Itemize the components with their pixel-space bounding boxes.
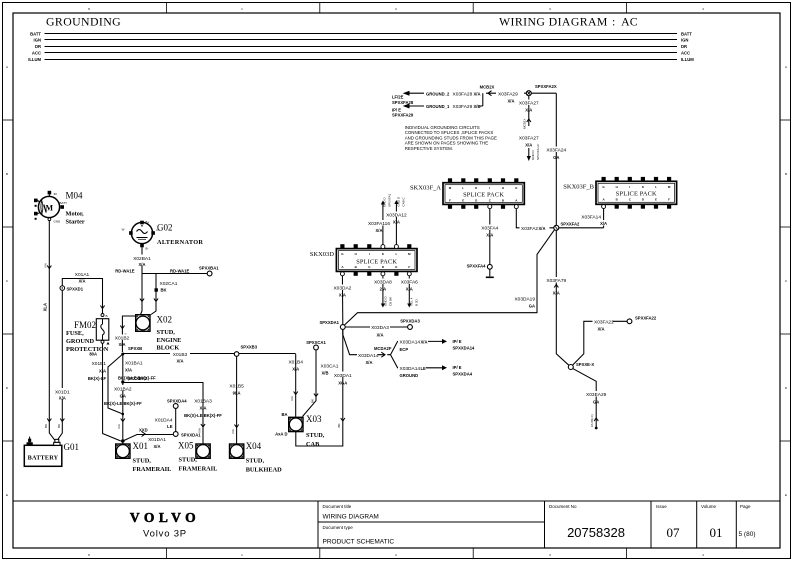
svg-text:X/B: X/B: [474, 104, 481, 109]
svg-text:ENGINE: ENGINE: [157, 337, 182, 344]
svg-text:GND D: GND D: [397, 196, 401, 207]
node SPXXE junction: [568, 362, 594, 370]
svg-text:SPXXDA1: SPXXDA1: [181, 433, 201, 438]
svg-text:IGN: IGN: [34, 37, 41, 42]
svg-text:ILLUM: ILLUM: [28, 57, 41, 62]
bus IGN: [34, 37, 689, 42]
wire X03DA12: [386, 196, 407, 245]
svg-text:SPXXBA1: SPXXBA1: [199, 266, 219, 271]
svg-text:X01A1: X01A1: [75, 272, 90, 278]
svg-text:X/A: X/A: [486, 233, 493, 238]
svg-text:X01: X01: [133, 441, 149, 451]
svg-text:X03FA79: X03FA79: [546, 278, 566, 284]
svg-text:I: I: [369, 252, 370, 256]
svg-text:SPXXD1: SPXXD1: [67, 287, 84, 292]
wire X03FA4: [481, 209, 500, 265]
svg-text:X03EA29: X03EA29: [586, 392, 607, 398]
svg-text:B 3D: B 3D: [415, 298, 419, 306]
svg-text:Starter: Starter: [66, 219, 85, 226]
splice pack SKX03F_A: [410, 178, 524, 208]
wire X03FA6: [400, 276, 419, 308]
node SPXXFA2X crossed splice: [526, 84, 557, 96]
svg-text:STUD,: STUD,: [179, 457, 198, 464]
svg-text:BATT: BATT: [681, 31, 692, 36]
svg-text:X04: X04: [246, 441, 262, 451]
svg-text:SPXXFA2: SPXXFA2: [561, 222, 581, 227]
svg-text:X03DA14: X03DA14: [400, 366, 421, 372]
wire X03FA14: [559, 209, 609, 228]
svg-text:CB BK: CB BK: [389, 297, 393, 306]
svg-text:SPXXDA4: SPXXDA4: [453, 372, 473, 377]
svg-text:BK: BK: [311, 399, 315, 403]
svg-text:SPXXBA2: SPXXBA2: [128, 376, 148, 381]
svg-text:RD-WA1E: RD-WA1E: [115, 269, 135, 274]
svg-text:X03DA2: X03DA2: [333, 286, 351, 292]
svg-text:X/A: X/A: [59, 396, 66, 401]
svg-text:SPXXCA1: SPXXCA1: [306, 340, 326, 345]
node SPXXB3: [234, 345, 257, 357]
svg-text:BATT: BATT: [30, 31, 41, 36]
wire X01DA4: [155, 408, 176, 431]
svg-text:X/A: X/A: [154, 444, 161, 449]
svg-text:X/A: X/A: [421, 340, 428, 345]
svg-text:Volume: Volume: [701, 504, 717, 509]
svg-text:RD-WA1E: RD-WA1E: [170, 269, 190, 274]
svg-text:CAB: CAB: [306, 441, 320, 448]
svg-text:Issue: Issue: [656, 504, 667, 509]
wire X01BA3: [123, 383, 222, 441]
svg-text:A: A: [785, 65, 787, 69]
wire X03DA2: [333, 276, 352, 325]
svg-text:X03FA29: X03FA29: [498, 91, 518, 97]
svg-text:X01B1: X01B1: [92, 361, 107, 367]
wire X01A1 battery to fuse: [62, 272, 104, 313]
svg-text:M: M: [46, 204, 54, 213]
svg-text:07: 07: [667, 525, 681, 540]
svg-text:X/A: X/A: [292, 367, 299, 372]
svg-text:SKX03F_B: SKX03F_B: [563, 184, 594, 191]
svg-text:IP/ E: IP/ E: [453, 365, 462, 370]
svg-text:AxA D: AxA D: [275, 432, 287, 437]
svg-text:X03DA19: X03DA19: [514, 297, 535, 303]
svg-text:X03FA14: X03FA14: [581, 215, 601, 221]
svg-text:B+: B+: [146, 220, 150, 224]
svg-text:ECP: ECP: [400, 347, 409, 352]
node SP splice on X01D1: [60, 286, 84, 292]
svg-text:PRODUCT SCHEMATIC: PRODUCT SCHEMATIC: [323, 539, 395, 546]
svg-text:ALTERNATOR: ALTERNATOR: [157, 239, 203, 246]
stud X02: [136, 315, 182, 352]
svg-text:X03FA28: X03FA28: [453, 91, 473, 97]
svg-text:X01BA3: X01BA3: [194, 399, 212, 405]
svg-text:: AC: : AC: [612, 15, 638, 29]
wire M04 GND to battery: [43, 221, 55, 441]
node SPXXCA1: [306, 340, 326, 350]
svg-text:I: I: [629, 185, 630, 189]
svg-text:B: B: [106, 314, 108, 318]
svg-text:X/A: X/A: [600, 221, 607, 226]
svg-text:DR: DR: [35, 44, 41, 49]
svg-text:GA: GA: [593, 400, 599, 405]
svg-text:GA: GA: [529, 304, 535, 309]
stud X03: [275, 412, 325, 448]
svg-text:E: E: [462, 198, 464, 202]
svg-text:X01B3: X01B3: [173, 352, 188, 358]
svg-text:VOL 4: VOL 4: [410, 297, 414, 306]
svg-text:5 (80): 5 (80): [739, 531, 756, 538]
svg-text:X02CA1: X02CA1: [160, 281, 178, 287]
node SPXXBA1: [199, 266, 219, 276]
svg-text:IGN: IGN: [681, 37, 688, 42]
wire to stud X01: [117, 414, 125, 444]
svg-text:FRAMERAIL: FRAMERAIL: [179, 466, 218, 473]
wire X01BA1: [118, 354, 156, 382]
svg-text:SPXXDA3: SPXXDA3: [400, 319, 420, 324]
svg-text:FM02: FM02: [74, 320, 96, 330]
svg-text:FRAMERAIL: FRAMERAIL: [133, 466, 172, 473]
svg-text:SPXXFA2X: SPXXFA2X: [535, 84, 557, 89]
bus DR: [35, 44, 687, 49]
wire X02BA1 alternator to X02: [115, 247, 189, 314]
svg-text:RESPECTIVE SYSTEM.: RESPECTIVE SYSTEM.: [405, 146, 453, 151]
wire GROUND_1 chain: [392, 103, 483, 118]
svg-text:X01DA1: X01DA1: [148, 437, 166, 443]
svg-text:GND D: GND D: [384, 296, 388, 307]
svg-text:F: F: [408, 265, 410, 269]
wire X01DA1: [123, 428, 173, 450]
wire X03CA1: [303, 350, 339, 417]
svg-text:H: H: [355, 252, 357, 256]
svg-text:W: W: [122, 228, 125, 232]
node SPXXDA1 junction: [319, 320, 345, 329]
svg-text:WIRING DIAGRAM: WIRING DIAGRAM: [499, 15, 608, 29]
svg-text:80A: 80A: [89, 352, 97, 357]
svg-text:GND: GND: [54, 220, 62, 224]
svg-text:Page: Page: [740, 504, 751, 509]
svg-text:20758328: 20758328: [567, 525, 625, 540]
svg-text:X03FA27: X03FA27: [519, 101, 539, 107]
svg-text:MCB2X: MCB2X: [480, 85, 495, 90]
svg-text:SKX03D: SKX03D: [310, 251, 335, 258]
bus BATT: [30, 31, 692, 36]
svg-text:BK: BK: [161, 288, 167, 293]
bus ACC: [32, 50, 690, 55]
svg-text:BK: BK: [44, 424, 48, 428]
svg-text:X/A: X/A: [44, 263, 48, 268]
svg-text:X/A: X/A: [393, 220, 400, 225]
TITLEBLOCK: [13, 501, 780, 548]
svg-text:I: I: [489, 186, 490, 190]
svg-text:BULKHEAD: BULKHEAD: [246, 467, 282, 474]
wire X01B4: [288, 354, 303, 417]
svg-text:X03FA24: X03FA24: [546, 148, 566, 154]
svg-text:BK: BK: [337, 423, 341, 427]
svg-text:Document No: Document No: [549, 504, 577, 509]
wire X02CA1: [151, 274, 178, 315]
wire X03FA27 lower off-page: [519, 136, 540, 162]
fuse FM02: [66, 314, 110, 357]
svg-text:X03DA12: X03DA12: [386, 213, 407, 219]
svg-text:X/A: X/A: [119, 342, 126, 347]
svg-text:X03FA6: X03FA6: [401, 280, 418, 286]
svg-text:GROUND_2: GROUND_2: [426, 91, 450, 96]
wire X03DA1: [296, 329, 353, 446]
svg-text:BK(X)-LF: BK(X)-LF: [88, 376, 107, 381]
svg-text:X/A: X/A: [99, 369, 106, 374]
node SPXXDA4: [167, 399, 187, 409]
svg-text:B: B: [785, 172, 787, 176]
svg-text:X/A: X/A: [117, 424, 121, 429]
svg-text:SPXXFA-LF: SPXXFA-LF: [536, 144, 540, 160]
svg-text:X/A: X/A: [525, 108, 532, 113]
svg-text:SPXXFA1: SPXXFA1: [388, 193, 392, 207]
svg-text:X01B5: X01B5: [229, 384, 244, 390]
svg-text:E: E: [655, 198, 657, 202]
svg-text:F: F: [668, 198, 670, 202]
svg-text:X03FA2: X03FA2: [521, 226, 538, 232]
svg-text:E: E: [785, 493, 787, 497]
svg-text:01: 01: [710, 525, 723, 540]
svg-text:X/A: X/A: [376, 228, 383, 233]
svg-text:SPXXE-X: SPXXE-X: [576, 362, 594, 367]
svg-text:A: A: [6, 65, 8, 69]
svg-text:30: 30: [54, 192, 58, 196]
svg-text:X03DA14: X03DA14: [358, 353, 379, 359]
svg-text:BLOCK: BLOCK: [157, 345, 180, 352]
node junction BA SPXXBA2: [121, 376, 148, 384]
svg-text:FUSE,: FUSE,: [66, 330, 84, 337]
svg-text:GA: GA: [120, 394, 126, 399]
svg-text:SPXXFA28: SPXXFA28: [392, 100, 414, 105]
svg-text:MCB2X: MCB2X: [522, 119, 526, 129]
wire X03FA79 down: [546, 230, 568, 365]
svg-text:X/A: X/A: [290, 396, 294, 401]
svg-text:F: F: [449, 198, 451, 202]
svg-text:X03FA116: X03FA116: [368, 221, 390, 227]
svg-text:X01B4: X01B4: [288, 360, 303, 366]
svg-text:LE: LE: [421, 366, 427, 371]
wire X01B3: [123, 351, 296, 364]
node SPXXFA4 ground termination: [467, 264, 494, 278]
svg-text:SPLICE PACK: SPLICE PACK: [356, 259, 397, 266]
svg-text:L: L: [655, 185, 657, 189]
svg-text:X03DA8: X03DA8: [374, 280, 392, 286]
wire X03FA27 upper: [519, 96, 539, 129]
svg-text:X03CA1: X03CA1: [321, 364, 339, 370]
svg-text:BATT: BATT: [60, 201, 68, 205]
svg-text:SPXXB: SPXXB: [128, 346, 142, 351]
wire X01D1 to battery: [53, 291, 72, 441]
node SPXXFA junction: [554, 222, 580, 231]
svg-text:X/A: X/A: [339, 293, 346, 298]
svg-text:G01: G01: [64, 442, 80, 452]
svg-text:B: B: [6, 172, 8, 176]
svg-text:X03DA3: X03DA3: [371, 325, 389, 331]
wire X03EA29: [573, 369, 607, 430]
svg-text:X02: X02: [157, 315, 173, 325]
svg-text:Document type: Document type: [323, 525, 354, 530]
wire X03FA2: [516, 209, 553, 232]
alternator G02: [122, 220, 204, 251]
svg-text:CAB C: CAB C: [402, 196, 406, 206]
wire X01BA2: [104, 382, 142, 414]
splice pack SKX03D: [310, 244, 417, 276]
wire X01B2 stud X02 to junction: [114, 316, 143, 352]
stud X05: [178, 441, 217, 473]
svg-text:SKX03F_A: SKX03F_A: [410, 185, 441, 192]
wire X03DA14 branch: [343, 329, 475, 378]
motor M04: [34, 191, 85, 226]
svg-text:GROUND_1: GROUND_1: [426, 104, 450, 109]
svg-text:X/A: X/A: [539, 226, 546, 231]
wire X03DA19 long run: [345, 230, 555, 325]
svg-text:ACC: ACC: [681, 50, 690, 55]
node SPXXFA22: [627, 316, 657, 324]
svg-text:X/A: X/A: [553, 291, 560, 296]
svg-text:2.A: 2.A: [380, 287, 387, 292]
note text: [405, 125, 497, 151]
svg-text:SPLICE PACK: SPLICE PACK: [463, 192, 504, 199]
svg-text:X03FA29: X03FA29: [453, 104, 473, 110]
svg-text:X/A: X/A: [79, 279, 86, 284]
svg-text:GROUNDING: GROUNDING: [46, 15, 121, 29]
svg-text:L: L: [462, 186, 464, 190]
svg-text:X/A: X/A: [406, 287, 413, 292]
svg-text:X01BA2: X01BA2: [114, 387, 132, 393]
wire X03FA116: [368, 193, 392, 244]
svg-text:XGA: XGA: [338, 381, 347, 386]
svg-text:G02: G02: [157, 223, 173, 233]
svg-text:SPXXDA14: SPXXDA14: [453, 346, 476, 351]
stud X04: [230, 441, 283, 474]
svg-text:BK: BK: [57, 424, 61, 428]
svg-text:STUD,: STUD,: [133, 458, 152, 465]
wire X01B1: [88, 354, 123, 414]
wire X03FA22: [573, 318, 628, 365]
svg-text:X/A: X/A: [366, 360, 373, 365]
wire FM02 to X01: [103, 343, 121, 441]
svg-text:X01BA1: X01BA1: [125, 361, 143, 367]
svg-text:BK(X)-LE BK(X)-FF: BK(X)-LE BK(X)-FF: [184, 413, 222, 418]
svg-text:X03: X03: [306, 414, 322, 424]
svg-text:X03FA4: X03FA4: [481, 226, 498, 232]
svg-text:ACC: ACC: [32, 50, 41, 55]
svg-text:Volvo 3P: Volvo 3P: [143, 529, 187, 540]
node SPXXDA3: [400, 319, 420, 330]
svg-text:BK(X)-LE BK(X)-FF: BK(X)-LE BK(X)-FF: [104, 401, 142, 406]
svg-text:GROUND: GROUND: [400, 373, 419, 378]
svg-text:X01DA4: X01DA4: [155, 418, 173, 424]
wire X03DA8: [374, 276, 393, 308]
svg-text:IP/ E: IP/ E: [453, 339, 462, 344]
svg-text:X/A: X/A: [200, 406, 207, 411]
wire GROUND_2 chain: [392, 85, 526, 106]
svg-text:GND D: GND D: [383, 197, 387, 208]
svg-text:X03FA27: X03FA27: [519, 136, 539, 142]
svg-text:SPXXDA4: SPXXDA4: [167, 399, 187, 404]
wire to splice SPXXBA1: [142, 273, 207, 275]
bus ILLUM: [28, 57, 694, 62]
svg-text:STUD,: STUD,: [157, 329, 176, 336]
node junction at X01 top: [122, 413, 125, 416]
svg-text:X/A: X/A: [377, 333, 384, 338]
svg-text:GND D: GND D: [531, 150, 535, 161]
stud X01: [116, 441, 172, 473]
svg-text:SPLICE PACK: SPLICE PACK: [616, 191, 657, 198]
svg-text:BA: BA: [281, 412, 287, 417]
svg-text:SPXXFA29: SPXXFA29: [392, 113, 414, 118]
svg-text:STUD,: STUD,: [306, 432, 325, 439]
svg-text:XXD: XXD: [139, 428, 148, 433]
svg-text:X/A: X/A: [508, 98, 515, 103]
svg-text:E: E: [6, 493, 8, 497]
svg-text:XLA: XLA: [43, 303, 48, 311]
svg-text:H: H: [502, 186, 504, 190]
svg-text:M04: M04: [66, 191, 84, 201]
node junction B: [121, 353, 124, 356]
svg-text:B-: B-: [146, 247, 149, 251]
svg-text:9LA: 9LA: [233, 391, 241, 396]
svg-text:STUD,: STUD,: [246, 458, 265, 465]
svg-text:VOLVO: VOLVO: [130, 510, 200, 525]
node SPXXDA1: [173, 432, 201, 438]
splice pack SKX03F_B: [563, 177, 676, 209]
svg-text:X03FA22: X03FA22: [594, 319, 614, 325]
wire X03FA24 vertical: [546, 93, 566, 225]
svg-text:Motor,: Motor,: [66, 211, 85, 218]
svg-text:X05: X05: [178, 441, 194, 451]
svg-text:X/A: X/A: [177, 359, 184, 364]
svg-text:FA 08(-X): FA 08(-X): [590, 414, 594, 427]
svg-text:SPXXDA1: SPXXDA1: [319, 320, 339, 325]
svg-text:X/A: X/A: [598, 327, 605, 332]
svg-text:MCDA2F: MCDA2F: [374, 346, 392, 351]
svg-text:X01B2: X01B2: [115, 336, 130, 342]
svg-text:SPXXFA4: SPXXFA4: [467, 264, 487, 269]
svg-text:DR: DR: [681, 44, 687, 49]
svg-text:E: E: [395, 265, 397, 269]
wire X01B5: [229, 356, 244, 444]
svg-text:SPXXB3: SPXXB3: [241, 345, 258, 350]
svg-text:X/A: X/A: [474, 91, 481, 96]
svg-text:L: L: [395, 252, 397, 256]
svg-text:GA: GA: [553, 155, 559, 160]
svg-text:X/A: X/A: [231, 429, 235, 434]
svg-text:X03DA14: X03DA14: [400, 340, 421, 346]
battery G01: [24, 437, 79, 467]
svg-text:H: H: [616, 185, 618, 189]
svg-text:LE: LE: [167, 424, 173, 429]
svg-text:X/A: X/A: [525, 143, 532, 148]
svg-text:WIRING DIAGRAM: WIRING DIAGRAM: [323, 514, 379, 521]
svg-text:X/B: X/B: [322, 371, 329, 376]
svg-text:SPXXFA22: SPXXFA22: [635, 316, 657, 321]
svg-text:Document title: Document title: [323, 504, 352, 509]
svg-text:GROUND: GROUND: [66, 338, 94, 345]
svg-text:X/A: X/A: [139, 262, 146, 267]
svg-text:ILLUM: ILLUM: [681, 57, 694, 62]
svg-text:BATTERY: BATTERY: [28, 455, 59, 462]
wire X03DA3: [345, 324, 407, 338]
svg-text:X/A: X/A: [125, 368, 132, 373]
svg-text:X03DA1: X03DA1: [334, 373, 352, 379]
